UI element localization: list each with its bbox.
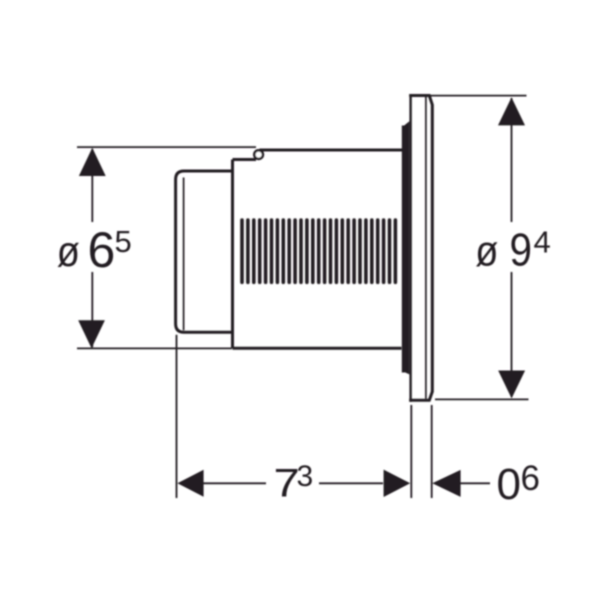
body step top edge — [233, 158, 257, 161]
arrow up dia 94 — [498, 97, 525, 125]
arrow up dia 65 — [79, 148, 106, 176]
thread knurl stripes — [240, 218, 397, 285]
ext line flange top (dia 94 top) — [429, 95, 527, 97]
dimension thin lines — [77, 96, 529, 498]
ext line flange bottom (dia 94 bottom) — [435, 398, 529, 400]
ext line wall face (73 right) — [410, 405, 412, 498]
arrow left 73 — [177, 470, 203, 497]
ext line body bottom (dia 65 bottom) — [77, 347, 232, 349]
svg-text:3: 3 — [297, 460, 314, 493]
label 06 — [497, 459, 540, 509]
label 73 — [274, 460, 314, 505]
svg-text:ø: ø — [57, 227, 80, 276]
ext line button face (73 left) — [176, 335, 178, 498]
label dia 94 — [475, 224, 550, 276]
dimension arrows — [78, 97, 525, 497]
svg-text:4: 4 — [534, 224, 551, 259]
body bottom edge — [233, 347, 402, 350]
ext line top of nub (dia 65 top) — [77, 146, 256, 148]
svg-text:6: 6 — [88, 222, 116, 278]
dim line 73 left segment — [203, 482, 266, 484]
dim line dia 65 lower segment — [91, 272, 93, 347]
ext line flange back (06) — [431, 405, 433, 498]
button (push button outline, rounded left corners) — [176, 171, 233, 332]
locating nub circle — [254, 150, 263, 159]
svg-text:ø: ø — [475, 226, 498, 275]
body front face vertical — [231, 160, 234, 349]
svg-text:9: 9 — [510, 225, 533, 276]
label dia 65 — [57, 222, 132, 278]
dim line 73 right segment — [319, 482, 383, 484]
button face inner line — [183, 178, 185, 331]
dim line dia 65 upper segment — [91, 149, 93, 222]
dim line dia 94 upper segment — [511, 98, 513, 222]
flange inner line — [425, 97, 427, 399]
arrow down dia 65 — [78, 320, 105, 348]
dim line 06 — [460, 482, 490, 484]
flange plate left edge — [409, 94, 411, 402]
svg-text:6: 6 — [521, 459, 540, 498]
rear collar (dark trapezoid) — [402, 121, 409, 374]
collar left edge — [402, 126, 405, 373]
body top edge — [260, 149, 403, 152]
arrow left 06 — [432, 470, 460, 497]
wall flange plate outline — [409, 96, 432, 401]
arrow down dia 94 — [498, 371, 525, 399]
arrow right 73 — [384, 470, 411, 497]
svg-text:5: 5 — [115, 224, 132, 259]
svg-text:0: 0 — [497, 460, 521, 509]
dim line dia 94 lower segment — [511, 272, 513, 397]
